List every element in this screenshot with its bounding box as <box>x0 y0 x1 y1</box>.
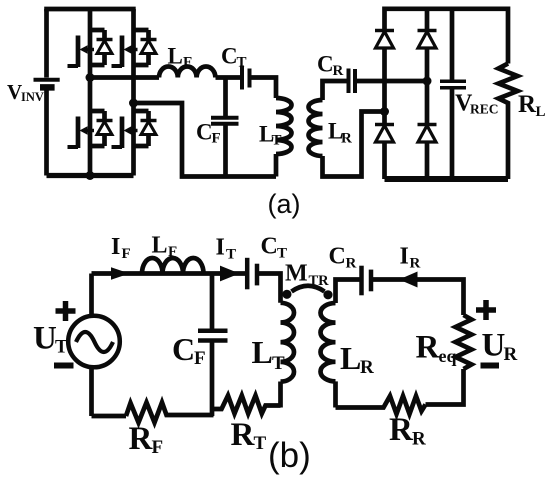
svg-text:R: R <box>389 412 414 448</box>
svg-text:L: L <box>536 104 546 120</box>
label V_INV <box>7 80 44 104</box>
wire bottom rail left bridge <box>47 173 134 178</box>
junction dot left leg <box>380 107 389 116</box>
label L_R <box>328 119 352 147</box>
diode D3 <box>375 125 394 143</box>
wire right rectifier leg lower <box>425 143 430 180</box>
svg-text:T: T <box>226 247 236 263</box>
transformer polarity dot left <box>282 290 291 299</box>
wire L_R bottom to R_R <box>333 381 338 407</box>
svg-text:F: F <box>183 55 192 71</box>
transistor Q1 <box>68 30 113 67</box>
label C_T equivalent <box>261 234 288 262</box>
svg-text:F: F <box>122 246 131 262</box>
svg-text:C: C <box>317 52 334 77</box>
inductor L_T <box>276 98 292 154</box>
inductor L_F <box>159 66 215 77</box>
svg-text:R: R <box>346 256 357 272</box>
wire U_T to L_F top <box>92 271 246 276</box>
capacitor C_R equivalent <box>362 266 372 296</box>
wire C_T to L_T equivalent <box>259 274 281 303</box>
svg-text:I: I <box>111 234 120 260</box>
label R_F <box>129 421 164 458</box>
svg-text:F: F <box>168 244 177 260</box>
wire top rail rectifier <box>385 9 509 64</box>
current arrow I_F <box>111 267 130 279</box>
svg-text:(b): (b) <box>268 436 311 475</box>
capacitor C_R <box>349 69 356 94</box>
wire C_R left to L_R corner <box>323 81 347 100</box>
svg-text:R: R <box>412 429 426 450</box>
capacitor C_F <box>211 78 239 177</box>
wire node A to L_F <box>90 75 159 80</box>
svg-text:F: F <box>212 131 221 147</box>
resistor R_T <box>212 396 281 414</box>
svg-text:C: C <box>261 234 278 260</box>
svg-text:R: R <box>231 417 256 453</box>
svg-text:R: R <box>341 131 352 147</box>
svg-text:T: T <box>237 55 247 71</box>
wire L_F to C_T <box>216 75 241 80</box>
plus sign U_T <box>56 301 76 321</box>
svg-text:L: L <box>252 334 273 370</box>
resistor R_L <box>499 64 518 180</box>
wire top rail left bridge <box>44 7 136 12</box>
diode D1 <box>375 31 394 49</box>
capacitor C_T equivalent <box>247 258 257 290</box>
junction dot right leg <box>423 77 432 86</box>
resistor R_eq <box>456 315 472 369</box>
minus sign U_R <box>481 363 500 369</box>
wire left rectifier leg lower <box>382 143 387 180</box>
label L_F <box>168 44 193 71</box>
label R_L <box>518 91 546 120</box>
label L_F equivalent <box>152 233 178 261</box>
svg-text:REC: REC <box>470 102 499 117</box>
svg-text:T: T <box>277 246 287 262</box>
wire L_R return to left bridge leg <box>323 112 385 177</box>
wire node B return path <box>134 103 277 177</box>
svg-text:TR: TR <box>309 273 330 289</box>
svg-text:R: R <box>416 330 441 366</box>
svg-text:R: R <box>518 91 537 118</box>
label R_T <box>231 417 267 454</box>
svg-text:M: M <box>285 261 308 287</box>
svg-text:F: F <box>152 437 164 458</box>
current arrow I_R <box>399 272 418 288</box>
current arrow I_T <box>220 266 240 282</box>
svg-text:R: R <box>410 256 421 272</box>
svg-text:U: U <box>482 328 506 364</box>
label V_REC <box>455 91 499 117</box>
wire left rectifier leg upper <box>382 48 387 124</box>
wire C_R to R_eq corner <box>373 280 464 316</box>
inductor L_R equivalent <box>321 303 336 381</box>
inductor L_R <box>309 100 323 156</box>
wire right rectifier leg upper <box>425 9 430 124</box>
transistor Q3 <box>68 111 113 148</box>
label L_R equivalent <box>340 340 374 378</box>
diode D4 <box>418 125 437 143</box>
label U_T <box>33 321 68 358</box>
capacitor C_F equivalent <box>198 274 228 417</box>
label C_R <box>317 52 344 80</box>
mutual inductance arc M_TR <box>292 286 325 292</box>
capacitor V_REC <box>440 9 466 179</box>
label R_eq <box>416 330 457 367</box>
svg-text:T: T <box>55 337 68 358</box>
svg-text:L: L <box>152 233 168 259</box>
label L_T equivalent <box>252 334 286 374</box>
label U_R <box>482 328 518 366</box>
label M_TR <box>285 261 329 290</box>
svg-text:C: C <box>172 331 195 367</box>
transistor Q4 <box>112 111 157 148</box>
transistor Q2 <box>112 30 157 67</box>
resistor R_F <box>126 403 214 423</box>
svg-text:R: R <box>333 63 344 79</box>
svg-text:C: C <box>329 244 346 270</box>
label I_T <box>216 235 237 263</box>
battery V_INV <box>34 9 60 176</box>
wire C_R to right bridge leg <box>357 79 427 84</box>
label R_R <box>389 412 426 450</box>
svg-text:L: L <box>168 44 183 69</box>
transformer polarity dot right <box>323 290 332 299</box>
svg-text:R: R <box>129 421 154 457</box>
svg-text:C: C <box>221 44 238 69</box>
inductor L_F equivalent <box>142 258 204 274</box>
label L_T <box>259 122 282 149</box>
label C_F <box>196 120 221 147</box>
inductor L_T equivalent <box>281 303 295 382</box>
AC source U_T <box>68 274 120 417</box>
wire L_T bottom to R_T <box>278 382 283 408</box>
svg-text:F: F <box>194 348 206 369</box>
wire U_T bottom to R_F <box>92 414 127 419</box>
svg-text:I: I <box>400 244 409 270</box>
svg-text:eq: eq <box>439 346 457 366</box>
resistor R_R <box>336 396 426 414</box>
svg-text:V: V <box>7 80 22 104</box>
node B junction dot <box>129 99 138 108</box>
svg-text:INV: INV <box>21 90 44 104</box>
svg-text:L: L <box>340 340 361 376</box>
svg-text:U: U <box>33 321 57 357</box>
svg-text:T: T <box>272 353 285 374</box>
wire R_eq bottom corner <box>426 369 464 405</box>
wire bottom rail rectifier <box>385 176 509 182</box>
svg-text:T: T <box>272 133 282 149</box>
svg-text:R: R <box>360 357 374 378</box>
svg-text:C: C <box>196 120 213 145</box>
capacitor C_T <box>242 66 250 90</box>
label C_F equivalent <box>172 331 206 369</box>
wire C_T to L_T <box>252 78 277 99</box>
svg-text:(a): (a) <box>268 189 301 219</box>
plus sign U_R <box>476 300 496 320</box>
junction dot Q3 source to rail <box>86 171 95 180</box>
wire left leg (Q1 drain/source, node A, Q3) <box>88 9 93 176</box>
svg-text:R: R <box>504 344 518 365</box>
label C_T <box>221 44 247 71</box>
wire right leg (Q2 drain/source, node B, Q4) <box>131 9 136 176</box>
node A junction dot <box>86 73 95 82</box>
diode D2 <box>418 31 437 49</box>
label I_R <box>400 244 421 272</box>
wire L_R top to C_R equivalent <box>336 280 360 304</box>
minus sign U_T <box>54 363 74 369</box>
wire L_T bottom <box>274 154 279 177</box>
svg-text:T: T <box>254 433 267 454</box>
label I_F <box>111 234 131 262</box>
label C_R equivalent <box>329 244 357 272</box>
svg-text:I: I <box>216 235 225 261</box>
